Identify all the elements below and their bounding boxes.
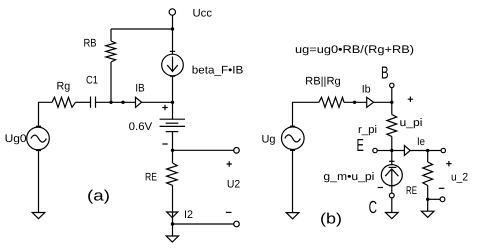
wire battery bottom lead <box>172 132 174 151</box>
wire to ground a2 <box>172 224 174 236</box>
terminal U2 minus <box>234 221 240 227</box>
terminal B <box>390 83 394 87</box>
wire to U2 plus terminal <box>173 149 234 151</box>
wire RE node to u_2 plus <box>428 150 441 152</box>
wire RB top lead <box>110 29 112 41</box>
pin tick F1 top <box>170 50 175 52</box>
svg-text:ug=ug0•RB/(Rg+RB): ug=ug0•RB/(Rg+RB) <box>295 44 414 56</box>
node output bottom junction <box>171 222 174 225</box>
wire Ib arrow to B node <box>374 101 392 103</box>
wire r_pi to E row <box>391 137 393 151</box>
current arrow IB <box>136 97 142 107</box>
node B junction <box>390 101 393 104</box>
node junction 2 <box>121 101 124 104</box>
terminal u_2 minus <box>440 197 445 202</box>
resistor Rg <box>52 97 76 107</box>
svg-text:Ie: Ie <box>417 136 425 148</box>
svg-text:C1: C1 <box>86 74 98 86</box>
svg-text:RE: RE <box>145 172 157 184</box>
wire Ie to RE node <box>410 150 428 152</box>
resistor RE <box>167 163 178 185</box>
node battery top junction <box>171 101 174 104</box>
resistor RB <box>106 41 116 62</box>
label + of U2 <box>227 161 232 166</box>
wire C1 to arrow IB <box>96 101 136 103</box>
wire Ucc to top rail <box>172 15 174 29</box>
wire B terminal lead <box>391 88 393 103</box>
svg-text:C: C <box>369 197 377 217</box>
node emitter junction <box>171 149 174 152</box>
label + of 0.6V <box>162 105 167 110</box>
wire G1 to C terminal <box>391 186 393 194</box>
svg-text:u_2: u_2 <box>451 172 468 184</box>
wire resistor to node <box>344 101 367 103</box>
node RE top junction <box>426 149 429 152</box>
node RE bottom junction <box>426 198 429 201</box>
svg-text:Ucc: Ucc <box>193 8 213 20</box>
resistor RB||Rg <box>319 97 344 107</box>
terminal U2 plus <box>234 148 240 154</box>
pin tick Ug top <box>290 125 295 127</box>
terminal Ucc <box>169 9 175 15</box>
wire E junction to Ie arrow <box>392 150 405 152</box>
wire B to r_pi <box>391 102 393 114</box>
ground b1 <box>286 213 299 219</box>
pin tick G1 bottom <box>389 185 394 187</box>
pin tick F1 bottom <box>170 75 175 77</box>
svg-text:u_pi: u_pi <box>400 117 423 129</box>
wire RE top lead <box>427 151 429 163</box>
label - of U2 <box>226 211 232 213</box>
svg-text:RB: RB <box>84 38 97 50</box>
terminal C <box>389 193 394 198</box>
svg-text:B: B <box>381 63 389 83</box>
wire input corner from Ug <box>293 102 319 126</box>
svg-text:Ug0: Ug0 <box>5 133 27 145</box>
current arrow I2 <box>167 212 178 218</box>
wire to U2 minus terminal <box>173 223 234 225</box>
wire Ug0 to ground <box>38 151 40 213</box>
wire RE to ground <box>427 199 429 211</box>
wire RE to I2 arrow <box>172 185 174 224</box>
current arrow Ie <box>404 146 410 156</box>
resistor RE (b) <box>423 162 433 186</box>
svg-text:g_m•u_pi: g_m•u_pi <box>323 171 374 183</box>
svg-text:E: E <box>357 135 364 155</box>
svg-text:Ib: Ib <box>362 84 371 96</box>
wire to battery <box>172 102 174 119</box>
ground b2 <box>386 213 399 219</box>
source Ug <box>282 127 305 150</box>
terminal u_2 plus <box>441 148 445 152</box>
node top-rail junction <box>171 27 174 30</box>
wire emitter to RE <box>172 150 174 163</box>
svg-text:U2: U2 <box>227 179 240 191</box>
wire E junction to g_m source <box>391 151 393 165</box>
pin tick Ug0 bottom <box>36 150 41 152</box>
label + of u_2 <box>446 161 451 166</box>
wire input corner from Ug0 <box>39 102 53 126</box>
wire E terminal to junction <box>377 150 392 152</box>
svg-text:RE: RE <box>406 185 417 197</box>
ground a2 <box>166 236 178 242</box>
ground b3 <box>421 211 434 217</box>
svg-text:Rg: Rg <box>57 81 71 93</box>
terminal E <box>373 148 377 152</box>
source Ug0 <box>27 127 50 150</box>
wire to u_2 minus <box>428 198 440 200</box>
wire current source top lead <box>172 29 174 54</box>
capacitor C1 <box>90 97 92 108</box>
label + of u_pi <box>408 97 413 102</box>
svg-text:Ug: Ug <box>262 134 276 146</box>
wire C terminal to ground <box>391 198 393 213</box>
wire IB arrow to battery node <box>142 101 173 103</box>
current arrow Ib <box>367 97 374 107</box>
wire current source bottom lead <box>172 76 174 103</box>
wire top rail horizontal <box>111 28 173 30</box>
wire RB bottom lead <box>110 62 112 102</box>
svg-text:beta_F•IB: beta_F•IB <box>192 65 244 77</box>
wire Rg to C1 <box>76 101 91 103</box>
pin tick Ug bottom <box>290 149 295 151</box>
resistor r_pi <box>387 115 397 137</box>
label - near C <box>378 187 383 189</box>
label - of u_2 <box>439 187 445 189</box>
svg-text:(b): (b) <box>320 211 342 228</box>
node E junction <box>390 149 393 152</box>
svg-text:IB: IB <box>135 82 145 94</box>
wire Ug to ground <box>292 150 294 212</box>
battery V1 0.6V <box>160 118 185 120</box>
pin tick G1 top <box>389 160 394 162</box>
wire RE bottom lead <box>427 186 429 200</box>
ground a1 <box>32 213 45 219</box>
node base junction <box>109 101 112 104</box>
svg-text:0.6V: 0.6V <box>129 121 153 133</box>
node b1 <box>353 101 356 104</box>
current source F1 beta_F*IB <box>162 54 184 76</box>
pin tick Ug0 top <box>36 125 41 127</box>
label - of 0.6V <box>162 143 167 145</box>
svg-text:I2: I2 <box>184 209 193 221</box>
current source G1 g_m*u_pi <box>381 165 402 186</box>
svg-text:(a): (a) <box>87 188 110 205</box>
svg-text:RB||Rg: RB||Rg <box>305 76 341 88</box>
